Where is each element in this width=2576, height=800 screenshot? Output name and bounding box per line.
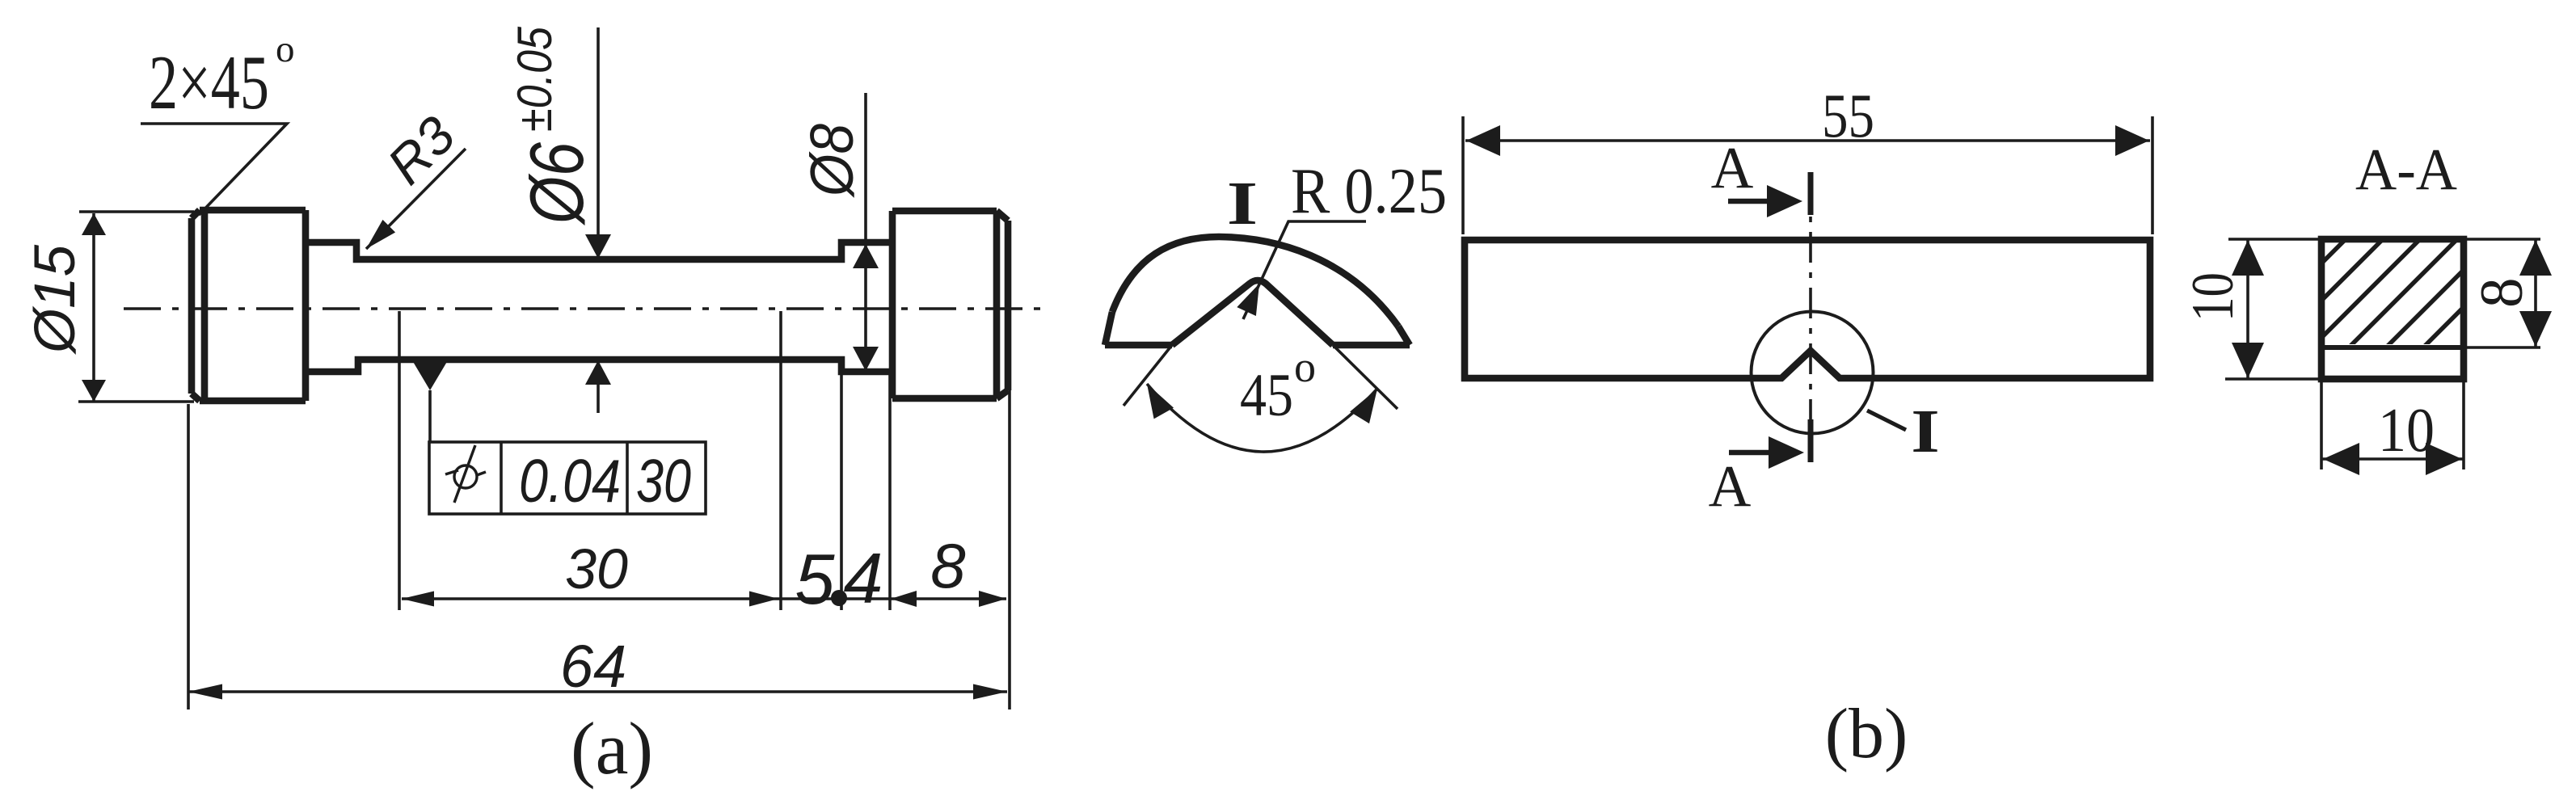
dimension line 8 right (2519, 239, 2552, 347)
svg-text:A: A (1711, 135, 1754, 200)
right head chamfer edge (997, 211, 1008, 398)
runout datum triangle (412, 360, 448, 442)
label 2x45deg chamfer (149, 28, 295, 125)
svg-text:Ø8: Ø8 (798, 124, 866, 199)
label A-A (2355, 137, 2457, 202)
svg-text:8: 8 (930, 530, 965, 601)
dim text 4 (844, 538, 883, 618)
left head chamfer 2x45 edge (192, 210, 200, 401)
bar specimen outline with notch (1465, 240, 2150, 378)
extension line head left face (888, 373, 892, 610)
notch angle extension lines (1124, 345, 1398, 409)
extension line at gauge right (779, 311, 782, 610)
label A top (1711, 135, 1754, 200)
upper profile collar-shaft-collar (306, 242, 892, 259)
dimension line 64 (188, 684, 1007, 700)
section A-A square outline (2321, 239, 2464, 379)
svg-text:A-A: A-A (2355, 137, 2457, 202)
tolerance value 0.04 (519, 447, 621, 515)
svg-text:o: o (1294, 343, 1316, 391)
extension line 64 left (187, 404, 190, 709)
extension line collar left (840, 373, 843, 610)
section arrow top A (1728, 185, 1802, 217)
label A bottom (1709, 453, 1752, 519)
right head outline (892, 211, 997, 398)
R 0.25 leader (1237, 221, 1366, 319)
dimension Ø15 extension lines (78, 212, 194, 402)
svg-text:30: 30 (565, 537, 628, 600)
label 45deg (1240, 343, 1316, 429)
label tolerance ±0.05 (508, 26, 562, 132)
label Ø6 (514, 141, 599, 225)
dimension line 10 bottom (2321, 443, 2464, 475)
extension line at gauge left (398, 311, 401, 610)
dimension Ø6 line upper (585, 27, 611, 259)
label Ø15 (23, 244, 87, 355)
label (b) (1825, 695, 1908, 773)
dimension Ø15 line and arrows (82, 213, 106, 402)
svg-text:R 0.25: R 0.25 (1291, 156, 1447, 227)
svg-text:I: I (1227, 170, 1258, 238)
dimension line 55 (1465, 125, 2150, 156)
svg-text:30: 30 (636, 447, 691, 515)
label 10 left (2180, 272, 2246, 322)
runout symbol (445, 445, 486, 503)
dimension 8 right extensions (2467, 239, 2540, 347)
section arrow bottom A (1729, 436, 1804, 469)
dim text 55 (1822, 81, 1874, 150)
svg-text:±0.05: ±0.05 (508, 26, 562, 132)
dimension 55 extension lines (1463, 116, 2152, 234)
dimension Ø6 arrow lower (585, 360, 611, 413)
svg-text:64: 64 (560, 633, 626, 700)
section plane mark bottom (1808, 419, 1814, 462)
svg-text:2×45: 2×45 (149, 40, 269, 125)
svg-text:(a): (a) (571, 707, 653, 789)
label 8 right (2468, 278, 2536, 309)
svg-text:0.04: 0.04 (519, 447, 621, 515)
section A-A hatching (2199, 236, 2576, 349)
tolerance length 30 (636, 447, 691, 515)
dimension 10 left extensions (2225, 239, 2318, 379)
dimension Ø8 line and arrows (853, 93, 879, 371)
svg-text:4: 4 (844, 538, 883, 618)
svg-text:(b): (b) (1825, 695, 1908, 773)
45 degree arc dimension (1147, 384, 1377, 452)
svg-text:45: 45 (1240, 362, 1293, 429)
left head outline (Ø15 head) (200, 210, 306, 401)
label I at circle (1911, 398, 1939, 465)
label R 0.25 (1291, 156, 1447, 227)
centerline of specimen (a) axis (124, 307, 1049, 310)
svg-text:10: 10 (2378, 395, 2435, 465)
lower profile collar-shaft-collar (306, 360, 892, 372)
R3 leader arrow (366, 149, 466, 249)
section plane mark top (1808, 172, 1814, 215)
detail view V-notch (1172, 280, 1333, 345)
dim text 5 (795, 539, 836, 619)
svg-text:Ø6: Ø6 (514, 141, 599, 225)
chamfer leader line (141, 124, 287, 215)
svg-text:55: 55 (1822, 81, 1874, 150)
dimension 10 bottom extensions (2321, 382, 2464, 469)
detail leader I (1867, 411, 1906, 430)
svg-text:A: A (1709, 453, 1752, 519)
dim text 30 (565, 537, 628, 600)
svg-text:5: 5 (795, 539, 836, 619)
section A-A inner line (2321, 345, 2464, 350)
label R3 fillet (376, 105, 466, 196)
svg-text:10: 10 (2180, 272, 2246, 322)
detail view blob outline (1105, 237, 1410, 345)
section centerline (1809, 176, 1812, 431)
label Ø8 (798, 124, 866, 199)
dim text 8 (930, 530, 965, 601)
svg-text:I: I (1911, 398, 1939, 465)
dimension line 30-5-4-8 (402, 590, 1006, 607)
label 10 bottom (2378, 395, 2435, 465)
dimension line 10 left (2232, 239, 2264, 379)
svg-text:8: 8 (2468, 278, 2536, 309)
dim text 64 (560, 633, 626, 700)
svg-text:Ø15: Ø15 (23, 244, 87, 355)
runout tolerance frame (429, 442, 706, 514)
svg-text:o: o (276, 28, 295, 70)
detail circle I (1752, 312, 1874, 434)
extension line head right (1008, 390, 1011, 709)
label (a) (571, 707, 653, 789)
label I detail top (1227, 170, 1258, 238)
